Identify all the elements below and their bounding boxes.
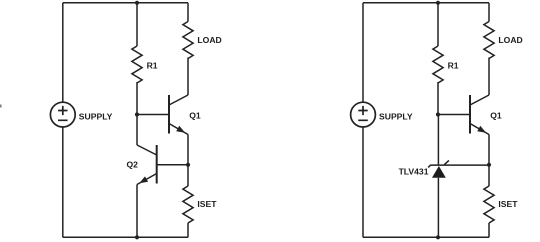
wire: sense node to ISET bbox=[187, 165, 189, 186]
wire: ISET to bottom rail bbox=[187, 223, 189, 237]
wire: TLV431 anode to bottom rail bbox=[437, 178, 439, 238]
resistor LOAD bbox=[484, 22, 494, 59]
wire: top rail to R1 bbox=[136, 3, 138, 46]
wire: top rail bbox=[63, 2, 188, 4]
wire: top rail to LOAD bbox=[488, 3, 490, 22]
wire: left rail upper segment bbox=[362, 3, 364, 102]
svg-text:R1: R1 bbox=[147, 61, 158, 71]
svg-text:ISET: ISET bbox=[197, 199, 217, 209]
wire: bottom rail bbox=[363, 236, 489, 238]
resistor R1 bbox=[132, 46, 142, 83]
wire: TLV431 cathode to sense node bbox=[430, 164, 489, 166]
resistor ISET bbox=[183, 186, 193, 223]
wire: top rail to R1 bbox=[437, 3, 439, 46]
wire: left rail lower segment bbox=[62, 127, 64, 237]
junction: Q1 base node bbox=[135, 112, 139, 116]
svg-text:SUPPLY: SUPPLY bbox=[79, 111, 113, 121]
transistor Q1 bbox=[438, 95, 489, 135]
junction: sense node bbox=[186, 163, 190, 167]
svg-text:SUPPLY: SUPPLY bbox=[379, 111, 413, 121]
svg-text:Q2: Q2 bbox=[127, 160, 139, 170]
svg-text:Q1: Q1 bbox=[189, 110, 201, 120]
junction: Q1 base node bbox=[436, 112, 440, 116]
wire: top rail bbox=[363, 2, 489, 4]
wire: R1 to Q1 base node bbox=[437, 82, 439, 115]
junction: top rail / middle branch bbox=[135, 1, 139, 5]
resistor LOAD bbox=[183, 22, 193, 59]
resistor ISET bbox=[484, 186, 494, 223]
svg-text:R1: R1 bbox=[448, 61, 459, 71]
transistor Q1 bbox=[137, 95, 188, 135]
svg-text:LOAD: LOAD bbox=[498, 35, 522, 45]
wire: Q1 base node to TLV431 cathode bbox=[437, 115, 439, 166]
resistor R1 bbox=[433, 46, 443, 83]
wire: sense node to ISET bbox=[488, 165, 490, 186]
wire: Q1 emitter to sense node bbox=[187, 135, 189, 165]
wire: left rail lower segment bbox=[362, 127, 364, 237]
transistor Q2 bbox=[137, 145, 188, 185]
wire: top rail to LOAD bbox=[187, 3, 189, 22]
wire: Q2 emitter to bottom rail bbox=[136, 185, 138, 238]
wire: Q1 base node to Q2 collector bbox=[136, 115, 138, 146]
wire: Q1 emitter to sense node bbox=[488, 135, 490, 165]
shunt regulator TLV431 bbox=[428, 160, 449, 177]
wire: ISET to bottom rail bbox=[488, 223, 490, 237]
junction: bottom rail / middle branch bbox=[135, 235, 139, 239]
junction: bottom rail / middle branch bbox=[436, 235, 440, 239]
wire: bottom rail bbox=[63, 236, 188, 238]
svg-text:LOAD: LOAD bbox=[197, 35, 221, 45]
wire: R1 to Q1 base node bbox=[136, 82, 138, 115]
wire: LOAD to Q1 collector bbox=[187, 58, 189, 96]
wire: LOAD to Q1 collector bbox=[488, 58, 490, 96]
voltage source SUPPLY bbox=[351, 102, 376, 127]
svg-text:ISET: ISET bbox=[498, 199, 518, 209]
wire: left rail upper segment bbox=[62, 3, 64, 102]
left-edge clipped mark bbox=[0, 105, 2, 108]
svg-text:Q1: Q1 bbox=[490, 110, 502, 120]
voltage source SUPPLY bbox=[50, 102, 75, 127]
junction: sense node bbox=[487, 163, 491, 167]
junction: top rail / middle branch bbox=[436, 1, 440, 5]
svg-text:TLV431: TLV431 bbox=[399, 167, 429, 177]
